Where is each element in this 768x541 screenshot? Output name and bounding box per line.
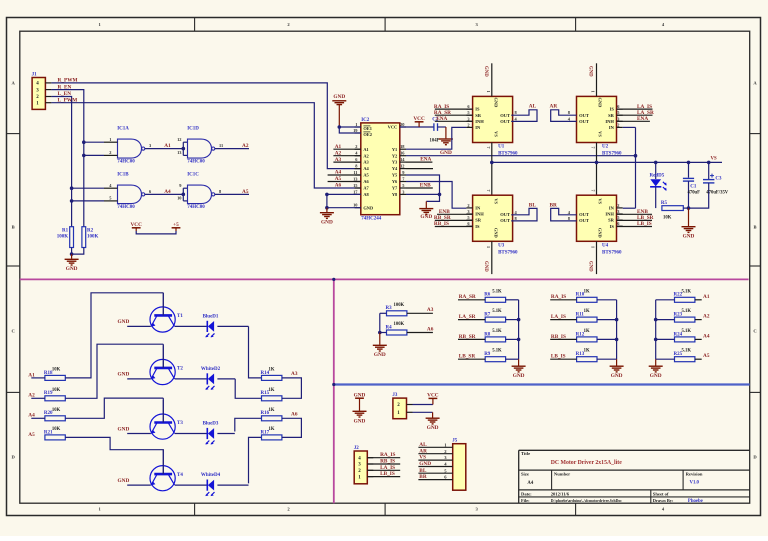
svg-text:VCC: VCC (388, 125, 398, 130)
wire Y1 to U1 IN (406, 127, 466, 149)
wire Y5/Y8 to ground (406, 175, 440, 201)
svg-text:GND: GND (493, 98, 498, 108)
net node BR (551, 208, 577, 221)
svg-text:104P: 104P (430, 138, 440, 143)
capacitor C3 470uF/35V (689, 162, 729, 208)
svg-text:File:: File: (521, 498, 530, 503)
led RedD5 (650, 162, 667, 208)
svg-text:7: 7 (486, 190, 491, 192)
svg-text:A2: A2 (363, 153, 368, 158)
wire A6 node (282, 418, 301, 437)
svg-text:10K: 10K (52, 388, 61, 393)
capacitor C1 470uF (683, 162, 700, 208)
svg-text:1K: 1K (269, 427, 275, 432)
svg-text:5.1K: 5.1K (492, 289, 502, 294)
nand gate IC1D (177, 127, 223, 165)
svg-text:DC Motor Driver 2x15A_lite: DC Motor Driver 2x15A_lite (551, 460, 623, 466)
wire BlueD3 to R16 (235, 418, 262, 431)
wire WhiteD2 to column (217, 378, 235, 380)
svg-text:R6: R6 (484, 293, 491, 298)
wire LB_SR (617, 219, 653, 221)
svg-text:R4: R4 (386, 325, 393, 330)
svg-text:BTS7960: BTS7960 (498, 152, 518, 157)
svg-text:A4: A4 (703, 333, 710, 339)
ground symbol at R3/R4 (373, 333, 387, 359)
wire R5 to node (683, 207, 688, 209)
ground symbol below IC2 (320, 208, 334, 226)
ground symbol at VS filter (682, 208, 696, 239)
svg-text:74HC00: 74HC00 (187, 160, 205, 165)
wire R4 (380, 332, 387, 334)
svg-text:V1.0: V1.0 (690, 481, 700, 486)
svg-text:GND: GND (483, 261, 488, 272)
svg-text:OUT: OUT (579, 218, 589, 223)
svg-text:R2: R2 (87, 229, 94, 234)
resistor R21 10K (44, 427, 65, 440)
svg-text:A5: A5 (703, 353, 710, 359)
power port VCC at J3 (427, 392, 439, 404)
power port VCC / +5 tie (130, 222, 180, 234)
svg-text:BL: BL (529, 202, 537, 208)
ground stub below U4 (596, 241, 598, 274)
svg-text:T2: T2 (177, 367, 183, 372)
svg-text:VS: VS (711, 157, 717, 162)
region separator line (magenta horizontal) (20, 278, 749, 280)
wire L_EN (51, 97, 71, 227)
svg-text:A5: A5 (28, 432, 35, 438)
wire A4 (IC1B out to IC1C in) (145, 193, 183, 195)
svg-text:10K: 10K (52, 367, 61, 372)
svg-text:A7: A7 (363, 186, 369, 191)
svg-text:J3: J3 (392, 393, 398, 398)
resistor R6 5.1K (484, 289, 505, 302)
wire OE1/OE2 to ground (339, 126, 361, 128)
svg-text:R8: R8 (484, 332, 491, 337)
ground symbol at Y5/Y8 (419, 201, 433, 220)
wire R1/R2 to ground (71, 248, 73, 255)
resistor R24 5.1K (674, 329, 695, 342)
transistor T1 (150, 293, 183, 332)
wire A2 stub (333, 155, 360, 157)
junction blue/vertical (332, 383, 335, 386)
wire LB_IS row (550, 358, 576, 360)
svg-text:D:\phoebe\arduino\..\dcmotordr: D:\phoebe\arduino\..\dcmotordriver.SchDo… (551, 499, 623, 503)
resistor R11 1K (576, 309, 597, 322)
svg-text:VS: VS (493, 131, 498, 137)
svg-text:1K: 1K (584, 329, 590, 334)
wire R_PWM (51, 83, 360, 169)
svg-text:GND: GND (440, 150, 452, 156)
resistor R9 5.1K (484, 349, 505, 362)
svg-text:A2: A2 (703, 314, 710, 320)
svg-text:GND: GND (374, 352, 386, 358)
svg-text:5.1K: 5.1K (682, 289, 692, 294)
wire J5 pin3 (418, 459, 452, 461)
nand gate IC1A (109, 127, 152, 165)
svg-text:GND: GND (483, 66, 488, 77)
svg-text:5.1K: 5.1K (682, 329, 692, 334)
connector J1 (32, 72, 52, 109)
wire WhiteD2 to R15 (235, 379, 261, 398)
svg-text:A6: A6 (335, 183, 342, 189)
wire ENB stub (406, 187, 433, 189)
ground stub above U1 (491, 63, 493, 96)
svg-text:AR: AR (550, 104, 558, 110)
svg-text:GND: GND (611, 373, 623, 379)
svg-text:IN: IN (475, 125, 481, 130)
svg-text:RedD5: RedD5 (650, 174, 665, 179)
svg-text:J2: J2 (354, 446, 360, 451)
wire L_PWM (51, 103, 360, 188)
resistor R18 10K (44, 367, 65, 380)
led WhiteD4 (175, 473, 221, 496)
wire LB_SR row (458, 358, 485, 360)
wire A2 (215, 148, 249, 150)
svg-text:U4: U4 (602, 244, 609, 249)
svg-text:Number: Number (554, 472, 570, 477)
svg-text:1: 1 (591, 246, 596, 248)
wire LB_IS (617, 226, 653, 228)
svg-text:A4: A4 (527, 481, 533, 486)
region separator line (magenta vertical) (333, 279, 335, 503)
wire R6-R9 common (518, 300, 520, 359)
svg-text:U2: U2 (602, 145, 609, 150)
ground stub below U3 (491, 241, 493, 274)
svg-text:R1: R1 (62, 229, 69, 234)
svg-text:R3: R3 (386, 306, 393, 311)
wire R3 (380, 312, 387, 314)
wire R3/R4 common (379, 313, 381, 332)
net node BL (511, 208, 537, 221)
svg-text:A6: A6 (363, 179, 369, 184)
ground symbol below R1/R2 (65, 254, 79, 272)
svg-text:470uF: 470uF (688, 191, 701, 196)
svg-text:IC1D: IC1D (187, 127, 199, 132)
svg-text:R7: R7 (484, 313, 491, 318)
svg-text:GND: GND (597, 98, 602, 108)
svg-text:Y4: Y4 (392, 166, 398, 171)
svg-text:Drawn By:: Drawn By: (653, 498, 674, 503)
svg-text:7: 7 (591, 147, 596, 149)
svg-text:Title: Title (521, 451, 530, 456)
svg-text:INH: INH (475, 119, 484, 124)
wire R10-R13 common (616, 300, 618, 359)
wire WhiteD4 to column (217, 484, 248, 486)
svg-text:T4: T4 (177, 473, 183, 478)
ground stub above U2 (596, 63, 598, 96)
wire emitter T2 (127, 378, 151, 380)
ground symbol at J3 (426, 412, 440, 431)
wire base T2 (31, 397, 45, 399)
resistor R25 5.1K (674, 349, 695, 362)
wire RB_SR (435, 219, 473, 221)
svg-text:A4: A4 (164, 189, 171, 195)
svg-text:5.1K: 5.1K (682, 349, 692, 354)
ground symbol at R10-R13 (610, 359, 624, 379)
net node AL (511, 110, 537, 122)
svg-text:GND: GND (588, 66, 593, 77)
svg-text:IN: IN (475, 206, 481, 211)
svg-text:GND: GND (427, 425, 439, 431)
svg-text:74HC00: 74HC00 (117, 160, 135, 165)
transistor T4 (150, 452, 183, 491)
svg-text:C: C (753, 329, 756, 334)
svg-text:2: 2 (109, 150, 111, 155)
wire J5 pin5 (418, 472, 452, 474)
resistor R23 5.1K (674, 309, 695, 322)
svg-text:IC1A: IC1A (117, 127, 129, 132)
svg-text:11: 11 (353, 170, 357, 175)
junction magenta/vertical (332, 278, 335, 281)
resistor R15 1K (261, 388, 282, 401)
svg-text:100K: 100K (87, 235, 99, 240)
svg-text:R9: R9 (484, 352, 491, 357)
svg-text:10K: 10K (52, 408, 61, 413)
svg-text:A1: A1 (703, 294, 710, 300)
svg-text:OUT: OUT (579, 113, 589, 118)
ground symbol at R22-R25 (649, 359, 663, 379)
svg-text:GND: GND (333, 94, 345, 100)
wire C2 to ground (438, 126, 446, 128)
svg-text:C1: C1 (690, 184, 697, 189)
wire IC1A inputs (84, 141, 104, 143)
resistor R13 1K (576, 349, 597, 362)
svg-text:1: 1 (486, 91, 491, 93)
svg-text:A2: A2 (242, 143, 249, 149)
svg-text:BTS7960: BTS7960 (602, 250, 622, 255)
wire base T1 (31, 377, 45, 379)
svg-text:1: 1 (486, 246, 491, 248)
wire emitter T1 (127, 325, 151, 327)
led BlueD1 (175, 314, 219, 337)
svg-text:GND: GND (493, 228, 498, 238)
wire base T4 (65, 437, 163, 451)
wire U2 VS pin down to VS bus (596, 143, 598, 196)
svg-text:A4: A4 (363, 166, 369, 171)
wire RB_SR row (458, 338, 485, 340)
svg-text:100K: 100K (394, 322, 405, 327)
svg-text:BTS7960: BTS7960 (602, 152, 622, 157)
svg-text:J1: J1 (32, 72, 37, 77)
svg-text:GND: GND (683, 233, 695, 239)
svg-text:GND: GND (597, 228, 602, 238)
capacitor C2 104P (430, 118, 440, 144)
svg-text:B: B (754, 225, 757, 230)
wire A1 (IC1A out to IC1D in) (145, 148, 183, 150)
wire ENA to U1 (435, 120, 473, 122)
wire A4 stub (328, 174, 361, 176)
wire RB_IS row (550, 338, 576, 340)
svg-text:1K: 1K (269, 367, 275, 372)
region separator line (blue horizontal) (334, 383, 750, 385)
svg-text:Y3: Y3 (392, 160, 398, 165)
svg-text:IS: IS (475, 224, 480, 229)
wire ENA at U2 (617, 120, 650, 122)
wire A2 row (656, 319, 675, 321)
wire J2 pin3 (367, 463, 400, 465)
power port VCC at IC2 (413, 116, 425, 127)
svg-text:U1: U1 (498, 145, 505, 150)
svg-text:J5: J5 (452, 439, 458, 444)
svg-text:12: 12 (400, 164, 404, 169)
svg-text:A3: A3 (363, 160, 369, 165)
svg-text:IN: IN (609, 125, 615, 130)
resistor R22 5.1K (674, 289, 695, 302)
svg-text:INH: INH (475, 212, 484, 217)
svg-text:Y2: Y2 (392, 153, 397, 158)
svg-text:1: 1 (591, 91, 596, 93)
wire A5 row (656, 358, 675, 360)
title block (519, 450, 750, 504)
svg-text:IS: IS (610, 224, 615, 229)
svg-text:A1: A1 (164, 143, 171, 149)
wire RA_SR row (458, 299, 485, 301)
svg-text:INH: INH (605, 119, 614, 124)
svg-text:A5: A5 (363, 173, 369, 178)
svg-text:Y1: Y1 (392, 147, 397, 152)
wire U2 IN (623, 126, 636, 128)
svg-text:T3: T3 (177, 421, 183, 426)
svg-text:SR: SR (608, 218, 615, 223)
svg-text:BR: BR (550, 202, 558, 208)
svg-text:+5: +5 (173, 222, 179, 228)
svg-text:100K: 100K (394, 303, 405, 308)
svg-text:VS: VS (597, 198, 602, 204)
wire A4 row (656, 338, 675, 340)
svg-text:74HC244: 74HC244 (361, 217, 382, 222)
wire BlueD1 to column (217, 325, 248, 327)
svg-text:2: 2 (355, 144, 357, 149)
svg-text:11: 11 (219, 143, 223, 148)
wire R22-R25 common (655, 300, 657, 359)
driver U3 BTS7960 (466, 195, 518, 255)
svg-text:GND: GND (363, 205, 373, 210)
svg-text:12: 12 (177, 137, 181, 142)
svg-text:74HC00: 74HC00 (187, 205, 205, 210)
led WhiteD2 (175, 367, 221, 390)
svg-text:OE2: OE2 (363, 132, 372, 137)
svg-text:GND: GND (650, 373, 662, 379)
svg-text:5.1K: 5.1K (492, 349, 502, 354)
svg-text:OUT: OUT (500, 218, 510, 223)
svg-text:VCC: VCC (130, 222, 142, 228)
wire J2 pin2 (367, 469, 400, 471)
svg-text:A5: A5 (242, 189, 249, 195)
svg-text:Date:: Date: (521, 491, 532, 496)
svg-text:1K: 1K (584, 349, 590, 354)
svg-text:7: 7 (591, 190, 596, 192)
svg-text:INH: INH (605, 212, 614, 217)
svg-text:GND: GND (118, 319, 130, 325)
svg-text:OUT: OUT (500, 113, 510, 118)
wire IC1B inputs (72, 187, 104, 189)
resistor R7 5.1K (484, 309, 505, 322)
wire Y2 bus (to U2/U4 IN) (406, 155, 636, 157)
resistor R3 (386, 303, 407, 316)
nand gate IC1B (109, 173, 152, 211)
wire pin17+pin10 to ground (327, 193, 361, 195)
svg-text:7: 7 (486, 147, 491, 149)
driver U4 BTS7960 (577, 195, 623, 255)
wire BlueD1 to R14 (249, 326, 262, 378)
wire emitter T4 (127, 484, 151, 486)
svg-text:2: 2 (617, 122, 619, 127)
svg-text:Phoebe: Phoebe (688, 499, 703, 504)
svg-text:5.1K: 5.1K (682, 309, 692, 314)
svg-text:A6: A6 (427, 326, 434, 332)
svg-text:OUT: OUT (500, 119, 510, 124)
ground symbol above IC2 (OE) (332, 94, 346, 127)
led BlueD3 (175, 421, 219, 444)
wire emitter T3 (127, 433, 151, 435)
svg-text:1: 1 (355, 122, 357, 127)
svg-text:1K: 1K (269, 388, 275, 393)
svg-text:1K: 1K (269, 408, 275, 413)
wire J3 pin2 to VCC (413, 404, 433, 406)
wire VS bus (492, 161, 722, 163)
connector J3 (392, 393, 412, 419)
svg-text:VS: VS (597, 131, 602, 137)
svg-text:GND: GND (118, 478, 130, 484)
svg-text:B: B (12, 225, 15, 230)
resistor R5 (661, 201, 683, 220)
svg-text:Y7: Y7 (392, 186, 398, 191)
wire J5 pin2 (418, 453, 452, 455)
ground symbol at C2 (439, 127, 453, 156)
resistor R14 1K (261, 367, 282, 380)
wire J5 pin4 (418, 466, 452, 468)
svg-text:74HC00: 74HC00 (117, 205, 135, 210)
svg-text:IC1B: IC1B (117, 173, 129, 178)
driver U2 BTS7960 (577, 96, 623, 156)
resistor R17 1K (261, 427, 282, 440)
wire LA_SR (617, 114, 653, 116)
wire U1 VS pin down to VS bus (491, 143, 493, 196)
nand gate IC1C (177, 173, 222, 211)
resistor R19 10K (44, 388, 65, 401)
svg-text:10K: 10K (52, 427, 61, 432)
power port GND tie (353, 393, 367, 425)
wire ENB to U3 (437, 213, 473, 215)
wire A3 stub (333, 161, 360, 163)
resistor R4 (386, 322, 407, 335)
wire Y6 to U3 IN (406, 182, 466, 209)
svg-text:C: C (12, 329, 15, 334)
svg-text:BlueD3: BlueD3 (203, 421, 219, 426)
svg-text:A6: A6 (291, 412, 298, 418)
wire LA_IS row (550, 319, 576, 321)
svg-text:470uF/35V: 470uF/35V (706, 191, 728, 196)
svg-text:GND: GND (118, 372, 130, 378)
svg-text:SR: SR (475, 113, 482, 118)
svg-text:A8: A8 (363, 192, 369, 197)
wire BlueD3 to column (217, 433, 234, 435)
wire LA_SR row (458, 319, 485, 321)
resistor R1 (57, 227, 74, 248)
wire base T3 (31, 417, 45, 419)
svg-text:OUT: OUT (579, 212, 589, 217)
svg-text:Y5: Y5 (392, 173, 398, 178)
svg-text:2: 2 (467, 203, 469, 208)
wire U4 IN (623, 207, 636, 209)
svg-text:IS: IS (610, 107, 615, 112)
svg-text:U3: U3 (498, 244, 505, 249)
svg-text:IC1C: IC1C (187, 173, 199, 178)
svg-text:GND: GND (420, 214, 432, 220)
svg-text:1K: 1K (584, 309, 590, 314)
svg-text:IN: IN (609, 206, 615, 211)
svg-text:BTS7960: BTS7960 (498, 250, 518, 255)
